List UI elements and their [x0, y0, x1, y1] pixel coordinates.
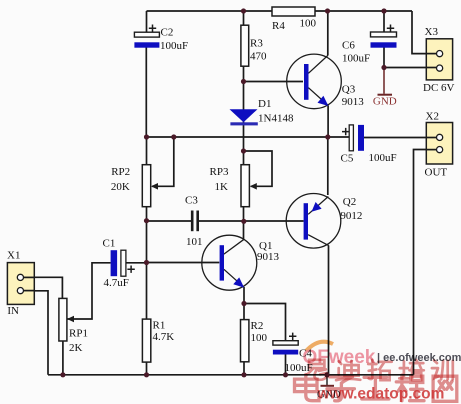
svg-text:R1: R1 — [153, 320, 166, 332]
svg-text:C6: C6 — [342, 40, 355, 52]
svg-text:OUT: OUT — [425, 167, 448, 179]
svg-text:X3: X3 — [425, 26, 439, 38]
svg-text:R2: R2 — [251, 320, 264, 332]
svg-text:C5: C5 — [341, 153, 354, 165]
svg-text:9013: 9013 — [257, 251, 280, 263]
svg-text:C2: C2 — [161, 27, 174, 39]
svg-text:100: 100 — [300, 18, 317, 30]
svg-text:100: 100 — [251, 332, 268, 344]
svg-text:101: 101 — [186, 236, 203, 248]
svg-text:RP2: RP2 — [111, 166, 130, 178]
svg-text:Q3: Q3 — [342, 84, 356, 96]
svg-text:GND: GND — [373, 96, 397, 108]
svg-text:2K: 2K — [69, 342, 83, 354]
svg-text:100uF: 100uF — [369, 152, 397, 164]
svg-text:D1: D1 — [258, 98, 271, 110]
svg-text:4.7uF: 4.7uF — [104, 277, 129, 289]
svg-text:R4: R4 — [272, 20, 285, 32]
svg-text:R3: R3 — [250, 38, 263, 50]
svg-text:RP3: RP3 — [210, 166, 229, 178]
svg-text:9012: 9012 — [340, 210, 362, 222]
svg-text:470: 470 — [250, 51, 267, 63]
svg-text:DC 6V: DC 6V — [423, 82, 455, 94]
svg-text:IN: IN — [7, 305, 19, 317]
svg-text:100uF: 100uF — [342, 53, 370, 65]
svg-text:RP1: RP1 — [69, 328, 88, 340]
svg-text:20K: 20K — [111, 181, 130, 193]
svg-text:Q2: Q2 — [343, 196, 356, 208]
svg-text:4.7K: 4.7K — [153, 331, 175, 343]
svg-text:C3: C3 — [185, 195, 198, 207]
svg-text:www.edatop.com: www.edatop.com — [317, 386, 445, 403]
svg-text:X1: X1 — [7, 250, 20, 262]
svg-text:1K: 1K — [215, 181, 229, 193]
svg-text:X2: X2 — [426, 111, 439, 123]
svg-text:C1: C1 — [103, 238, 116, 250]
svg-text:9013: 9013 — [342, 96, 365, 108]
svg-text:1N4148: 1N4148 — [258, 113, 294, 125]
svg-text:100uF: 100uF — [160, 40, 188, 52]
